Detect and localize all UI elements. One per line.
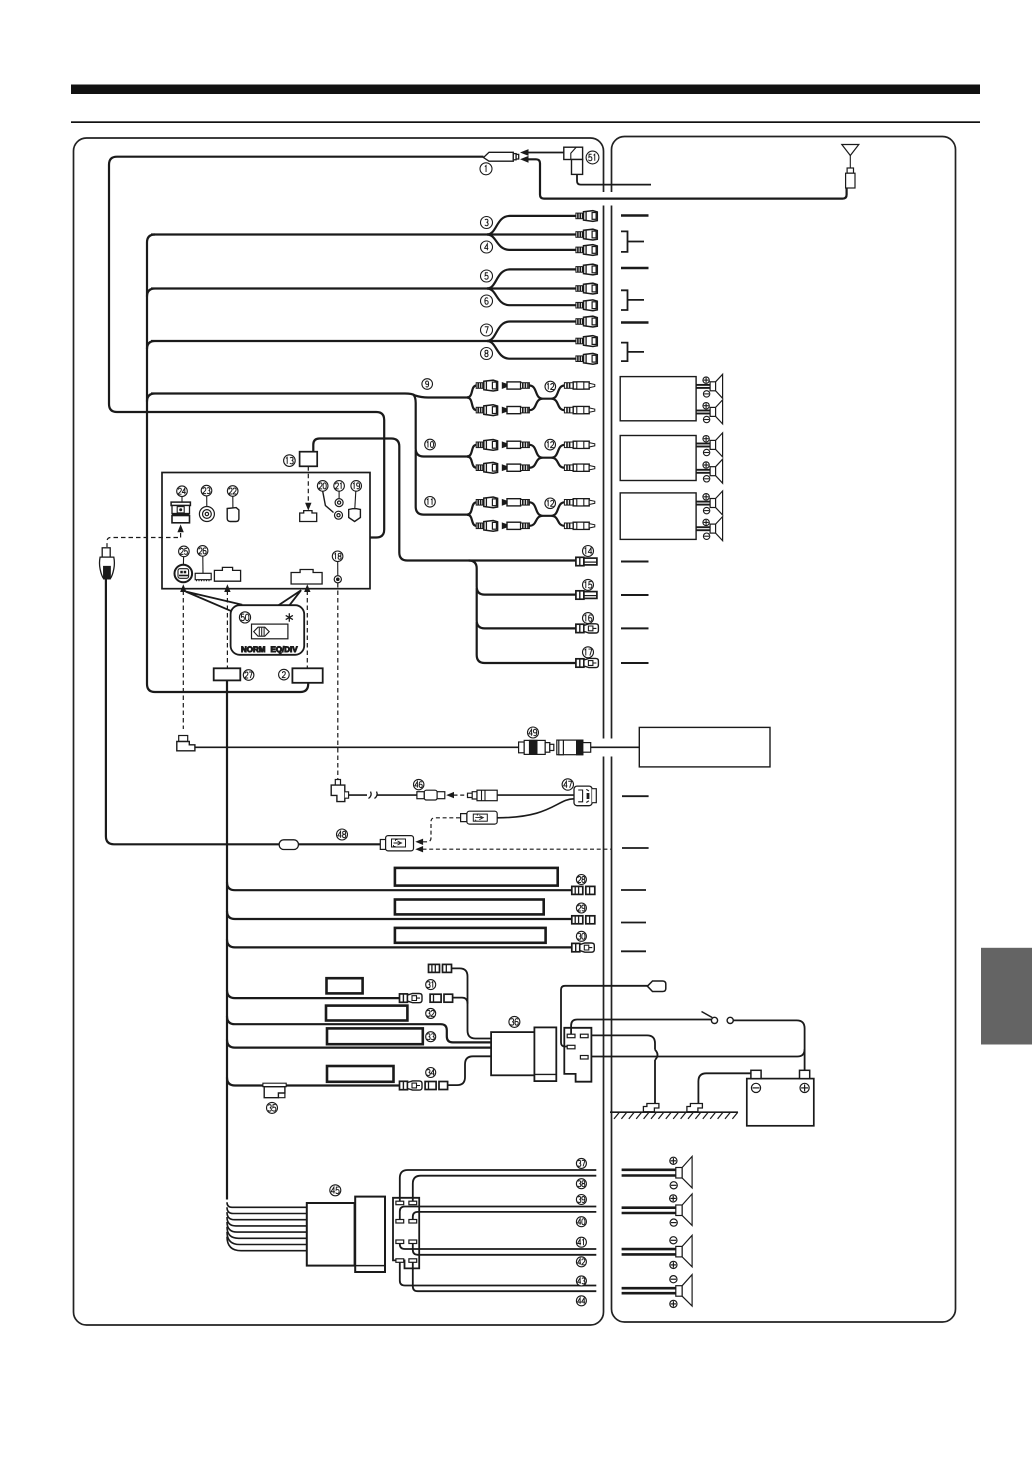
harness pin 40	[409, 1220, 417, 1224]
display box right panel	[639, 727, 770, 767]
wire fork 9 top	[467, 386, 477, 398]
lead line row 5	[621, 267, 649, 269]
socket for 13 on unit	[300, 511, 317, 522]
wire fork RCA 3	[487, 216, 577, 235]
brace rows 3/4	[621, 231, 644, 252]
wire 49 to display box	[591, 746, 640, 748]
remote lead right-angle plug	[177, 736, 195, 751]
speaker amp1 top	[696, 374, 723, 398]
RCA plug 12b bottom	[502, 464, 529, 471]
label 32	[426, 1008, 436, 1018]
wire ground lead	[591, 1035, 655, 1103]
RCA jack mid 3/4	[576, 229, 597, 240]
right-angle mini plug 46	[331, 780, 348, 802]
label 29	[576, 903, 586, 913]
wire row 32	[227, 1016, 492, 1042]
harness pin 42	[409, 1240, 417, 1244]
power plug pin ACC	[567, 1034, 575, 1038]
RCA plug 12c right top	[564, 499, 594, 506]
label 15	[583, 579, 594, 590]
label 26	[197, 546, 208, 557]
wire from adapter 51	[577, 174, 651, 184]
bullet connector 28	[572, 886, 595, 894]
lug pair 31 upper	[429, 964, 452, 972]
RCA jack 9 bottom	[476, 405, 497, 416]
harness connector 36 body	[491, 1032, 534, 1075]
arrow on antenna feed wire to plug 1	[520, 156, 529, 163]
mini plug on 47 cable	[468, 790, 498, 801]
label 18	[332, 551, 343, 562]
wire 46 with break	[348, 794, 417, 796]
wire trunk RCA bundle to adapter 2	[147, 235, 308, 693]
jack 20 circle	[335, 511, 343, 519]
connector 14	[576, 557, 597, 565]
left panel border	[74, 138, 604, 1325]
jack 24 optical out	[171, 502, 190, 523]
socket 26	[195, 573, 211, 581]
label 4	[481, 241, 493, 253]
ground lug right	[687, 1104, 703, 1112]
wire from connector 13 to leads 14-17	[313, 439, 576, 561]
ISO connector 45 body	[307, 1203, 355, 1266]
wire remote lead to 49	[195, 746, 519, 748]
battery	[747, 1070, 814, 1125]
RCA jack mid 5/6	[576, 283, 597, 294]
wire row 28	[227, 882, 573, 890]
mating harness frame	[393, 1198, 419, 1269]
spade connector 34 left	[400, 1081, 423, 1090]
lug 34 right	[425, 1082, 448, 1090]
label 16	[583, 613, 594, 624]
brace rows 5/6	[621, 290, 644, 310]
wire antenna lead from plug 1 to head unit	[109, 157, 484, 538]
wire feed RCA pair 3/4	[151, 233, 489, 235]
socket 25 DIN	[175, 565, 193, 583]
RCA jack 11 bottom	[476, 521, 497, 532]
header thin rule	[71, 121, 980, 123]
label 7	[481, 324, 493, 336]
lead line row 29	[621, 922, 646, 924]
jack 21 circle	[335, 499, 343, 507]
dashed lead 25 to remote plug	[182, 591, 184, 730]
amplifier box 3	[620, 493, 696, 540]
wire fork RCA 7	[487, 322, 577, 342]
label 2	[279, 669, 290, 680]
head unit rear panel box	[162, 473, 370, 589]
speaker rear right	[622, 1275, 693, 1308]
spade connector 30	[572, 943, 595, 952]
vehicle antenna symbol	[842, 145, 859, 189]
label 9	[422, 379, 433, 390]
antenna adapter 51	[564, 147, 583, 174]
lead line row 7	[621, 321, 649, 323]
harness pin 41	[396, 1240, 404, 1244]
lug 31 lower right	[430, 994, 453, 1002]
lead line row 48	[622, 847, 649, 849]
RCA plug 12c bottom	[502, 522, 529, 529]
lead line row 15	[621, 594, 649, 596]
RCA plug 12b right top	[564, 441, 594, 448]
label 3	[481, 217, 493, 229]
speaker amp2 bottom	[696, 459, 723, 483]
dashed lead 13 to socket	[307, 466, 309, 503]
wire branch leads 15/16/17	[469, 561, 577, 664]
label 41	[576, 1237, 586, 1247]
wire battery lead	[591, 1049, 804, 1056]
label 14	[583, 546, 594, 557]
label 31	[426, 980, 436, 990]
connector 15	[576, 591, 597, 599]
wire 47 usb branch	[497, 799, 574, 818]
label 11	[425, 497, 436, 508]
svg-text:EQ/DIV: EQ/DIV	[271, 645, 299, 654]
label 19	[351, 481, 362, 492]
label 46	[414, 779, 424, 789]
wire vehicle antenna to plug 1 (crosses divider)	[526, 159, 847, 198]
lead line row 28	[621, 889, 646, 891]
harness pin 37	[396, 1201, 404, 1205]
ignition switch	[702, 1012, 734, 1024]
vehicle power plug	[564, 1028, 591, 1082]
label 47	[562, 779, 573, 790]
wire 12b Y	[529, 445, 565, 468]
RCA plug 12a right bottom	[564, 407, 594, 414]
label 30	[576, 931, 586, 941]
label 17	[583, 647, 594, 658]
wire RCA mid 3/4	[489, 233, 577, 235]
wire 44	[413, 1262, 597, 1291]
wire fork 11 top	[467, 502, 477, 514]
wire accessory lead to tag	[561, 986, 648, 1047]
wire row 29	[227, 911, 573, 919]
long dashed lead to 48 from right panel	[423, 848, 612, 850]
label 44	[576, 1296, 586, 1306]
wire fork 11 bottom	[467, 515, 477, 526]
RCA jack 4	[576, 245, 597, 256]
lead line row 46/47	[622, 795, 649, 797]
wire 12a Y	[529, 386, 565, 411]
RCA jack 10 top	[476, 440, 497, 451]
lead line row 3	[621, 214, 649, 216]
amplifier box 2	[620, 436, 696, 481]
lead line row 17	[621, 662, 649, 664]
RCA jack 3	[576, 211, 597, 222]
lead line row 14	[621, 561, 649, 563]
harness pin 43	[396, 1259, 404, 1263]
optical plug	[100, 548, 115, 579]
label 33	[426, 1032, 436, 1042]
label 36	[509, 1016, 520, 1027]
wire 42	[413, 1244, 597, 1255]
label 20	[317, 481, 328, 492]
RCA jack 11 top	[476, 497, 497, 508]
RCA jack 9 top	[476, 380, 497, 391]
connector 17	[576, 658, 599, 667]
ferrite bead on 48 cable	[279, 840, 298, 850]
wire 31 lower to harness	[453, 998, 468, 1004]
wire fork RCA 6	[487, 289, 577, 306]
wire 12c Y	[529, 502, 565, 526]
USB extension socket 48	[380, 836, 413, 851]
label 45	[330, 1185, 341, 1196]
label 28	[576, 875, 586, 885]
wire row 31	[227, 990, 400, 998]
label 35	[267, 1102, 278, 1113]
wire 41	[400, 1244, 597, 1250]
label 21	[334, 481, 345, 492]
lead label box 29	[395, 900, 544, 915]
wire RCA mid 5/6	[489, 287, 577, 289]
label 5	[481, 270, 493, 282]
label 22	[227, 486, 238, 497]
power plug pin mid	[567, 1045, 575, 1049]
page edge gray tab	[981, 948, 1032, 1045]
label 12b	[545, 439, 556, 450]
wire feed RCA pair 7/8	[147, 341, 489, 349]
wire fork RCA 8	[487, 341, 577, 359]
label 8	[481, 348, 493, 360]
label 12a	[545, 381, 556, 392]
wire 34 to harness	[448, 1056, 492, 1085]
lead label box 30	[395, 928, 546, 943]
label 51	[586, 151, 599, 164]
label 48	[337, 829, 348, 840]
callout leader lines to switch 50	[186, 592, 243, 612]
fuse holder 35	[263, 1083, 286, 1098]
cable box 27	[214, 668, 241, 680]
arrow from adapter 51 to plug 1	[524, 152, 564, 154]
wire fork 9 bottom	[467, 398, 477, 411]
speaker rear left	[622, 1235, 693, 1268]
label 10	[425, 439, 436, 450]
label 50	[239, 612, 250, 623]
lead label box 28	[395, 868, 558, 886]
wire 43	[400, 1262, 597, 1285]
wire ignition lead to switch	[571, 1020, 711, 1035]
brace rows 7/8	[621, 343, 644, 362]
speaker front left	[622, 1156, 693, 1189]
jack 19	[349, 509, 361, 522]
RCA jack 6	[576, 300, 597, 311]
terminal 18	[334, 576, 341, 583]
label 39	[576, 1195, 586, 1205]
wire fork 10 top	[467, 445, 477, 457]
label 49	[528, 727, 539, 738]
label 1	[480, 163, 492, 175]
divider gap at extension 49 crossing	[601, 739, 606, 757]
asterisk	[286, 613, 293, 621]
wire feed RCA pair 5/6	[147, 289, 489, 297]
label 23	[201, 485, 212, 496]
dashed arrow into 46	[454, 794, 473, 796]
lead line row 30	[621, 950, 646, 952]
label 43	[576, 1276, 586, 1286]
power plug pin IGN	[580, 1034, 588, 1038]
wire fork 10 bottom	[467, 457, 477, 468]
wire feed RCA groups 9/10/11	[147, 394, 468, 402]
wire fork RCA 5	[487, 269, 577, 288]
label 38	[576, 1179, 586, 1189]
divider gap at antenna wire crossing	[601, 192, 606, 206]
lead label box 33	[327, 1028, 423, 1044]
RCA jack mid 7/8	[576, 336, 597, 347]
wire branch to forks 10 and 11	[414, 395, 468, 515]
label 6	[481, 295, 493, 307]
RCA jack 10 bottom	[476, 462, 497, 473]
label 24	[177, 486, 188, 497]
antenna plug 1	[484, 152, 519, 161]
socket for 27 on unit	[214, 567, 240, 581]
RCA plug 12c top	[502, 499, 529, 506]
speaker amp3 top	[696, 491, 723, 515]
connector 13 box	[300, 452, 318, 467]
speaker amp1 bottom	[696, 400, 723, 424]
label 40	[576, 1217, 586, 1227]
amplifier box 1	[620, 377, 696, 421]
dock connector 47	[574, 786, 596, 806]
harness pin 38	[409, 1201, 417, 1205]
speaker amp2 top	[696, 433, 723, 457]
jack 22	[227, 508, 239, 522]
lead label box 34	[327, 1066, 394, 1082]
chassis ground hatched line	[610, 1112, 738, 1119]
wire fork RCA 4	[487, 235, 577, 250]
harness pin 44	[409, 1259, 417, 1263]
ISO connector 45 head	[355, 1197, 385, 1272]
cable box 2	[292, 668, 322, 683]
RCA plug 12c right bottom	[564, 522, 594, 529]
bullet connector 29	[572, 916, 595, 924]
RCA jack 7	[576, 316, 597, 327]
label 13	[284, 455, 296, 467]
label 42	[576, 1257, 586, 1267]
label 37	[576, 1158, 586, 1168]
speaker front right	[622, 1194, 693, 1226]
dashed lead 26/27	[226, 591, 228, 669]
wire 37	[400, 1170, 597, 1201]
ground wire hop	[655, 1050, 658, 1060]
wire 40	[413, 1212, 597, 1220]
power plug pin BATT	[580, 1056, 588, 1060]
RCA plug 12b right bottom	[564, 464, 594, 471]
dashed lead 2	[306, 591, 308, 669]
extension 49 connectors	[519, 740, 591, 755]
ground lug left	[643, 1104, 659, 1112]
RCA jack 8	[576, 353, 597, 364]
wire switch to battery positive	[733, 1020, 804, 1070]
spade connector 31 lower left	[400, 994, 423, 1003]
RCA plug 12a right top	[564, 382, 594, 389]
harness connector 36 head	[534, 1027, 556, 1081]
wire row 34	[227, 1078, 400, 1086]
switch 50 detail box	[231, 605, 305, 655]
dashed lead 24 to optical plug	[107, 533, 181, 547]
lead label box 32	[326, 1006, 407, 1021]
wire fan into connector 45	[227, 1202, 307, 1250]
jack 20 lead	[323, 491, 334, 512]
jack 23 rotary commander	[199, 507, 214, 522]
RCA jack 5	[576, 264, 597, 275]
wire row 30	[227, 939, 573, 947]
header thick rule	[71, 85, 980, 95]
svg-text:NORM: NORM	[241, 645, 266, 654]
USB plug to 47	[461, 811, 498, 824]
harness pin 39	[396, 1220, 404, 1224]
wire RCA mid 7/8	[489, 340, 577, 342]
accessory tag terminal	[647, 981, 665, 992]
wire 38	[413, 1176, 597, 1202]
wire row 33	[227, 1040, 492, 1048]
RCA plug 12b top	[502, 441, 529, 448]
RCA plug 12a top	[502, 382, 529, 389]
dashed lead 18 to AV plug 46	[337, 583, 339, 779]
dashed from USB plug to 48	[423, 818, 461, 842]
speaker amp3 bottom	[696, 517, 723, 541]
wire 39	[400, 1207, 597, 1220]
wire 31 upper to harness	[452, 968, 492, 1038]
wire 27 down	[226, 680, 228, 1199]
lead label box 31	[327, 978, 363, 993]
wire battery negative to ground	[698, 1073, 753, 1103]
wire 47 mini plug	[497, 794, 574, 796]
label 34	[426, 1068, 436, 1078]
RCA plug 12a bottom	[502, 407, 529, 414]
lead line row 16	[621, 627, 649, 629]
label 27	[243, 670, 254, 681]
connector 16	[576, 624, 599, 633]
right panel border	[612, 137, 956, 1323]
switch 50 slider icon	[252, 624, 288, 639]
socket for 2 on unit	[291, 570, 322, 585]
extension barrel 46	[417, 790, 445, 800]
label 12c	[545, 498, 556, 509]
optical cable wire	[106, 579, 380, 845]
label 25	[179, 546, 190, 557]
